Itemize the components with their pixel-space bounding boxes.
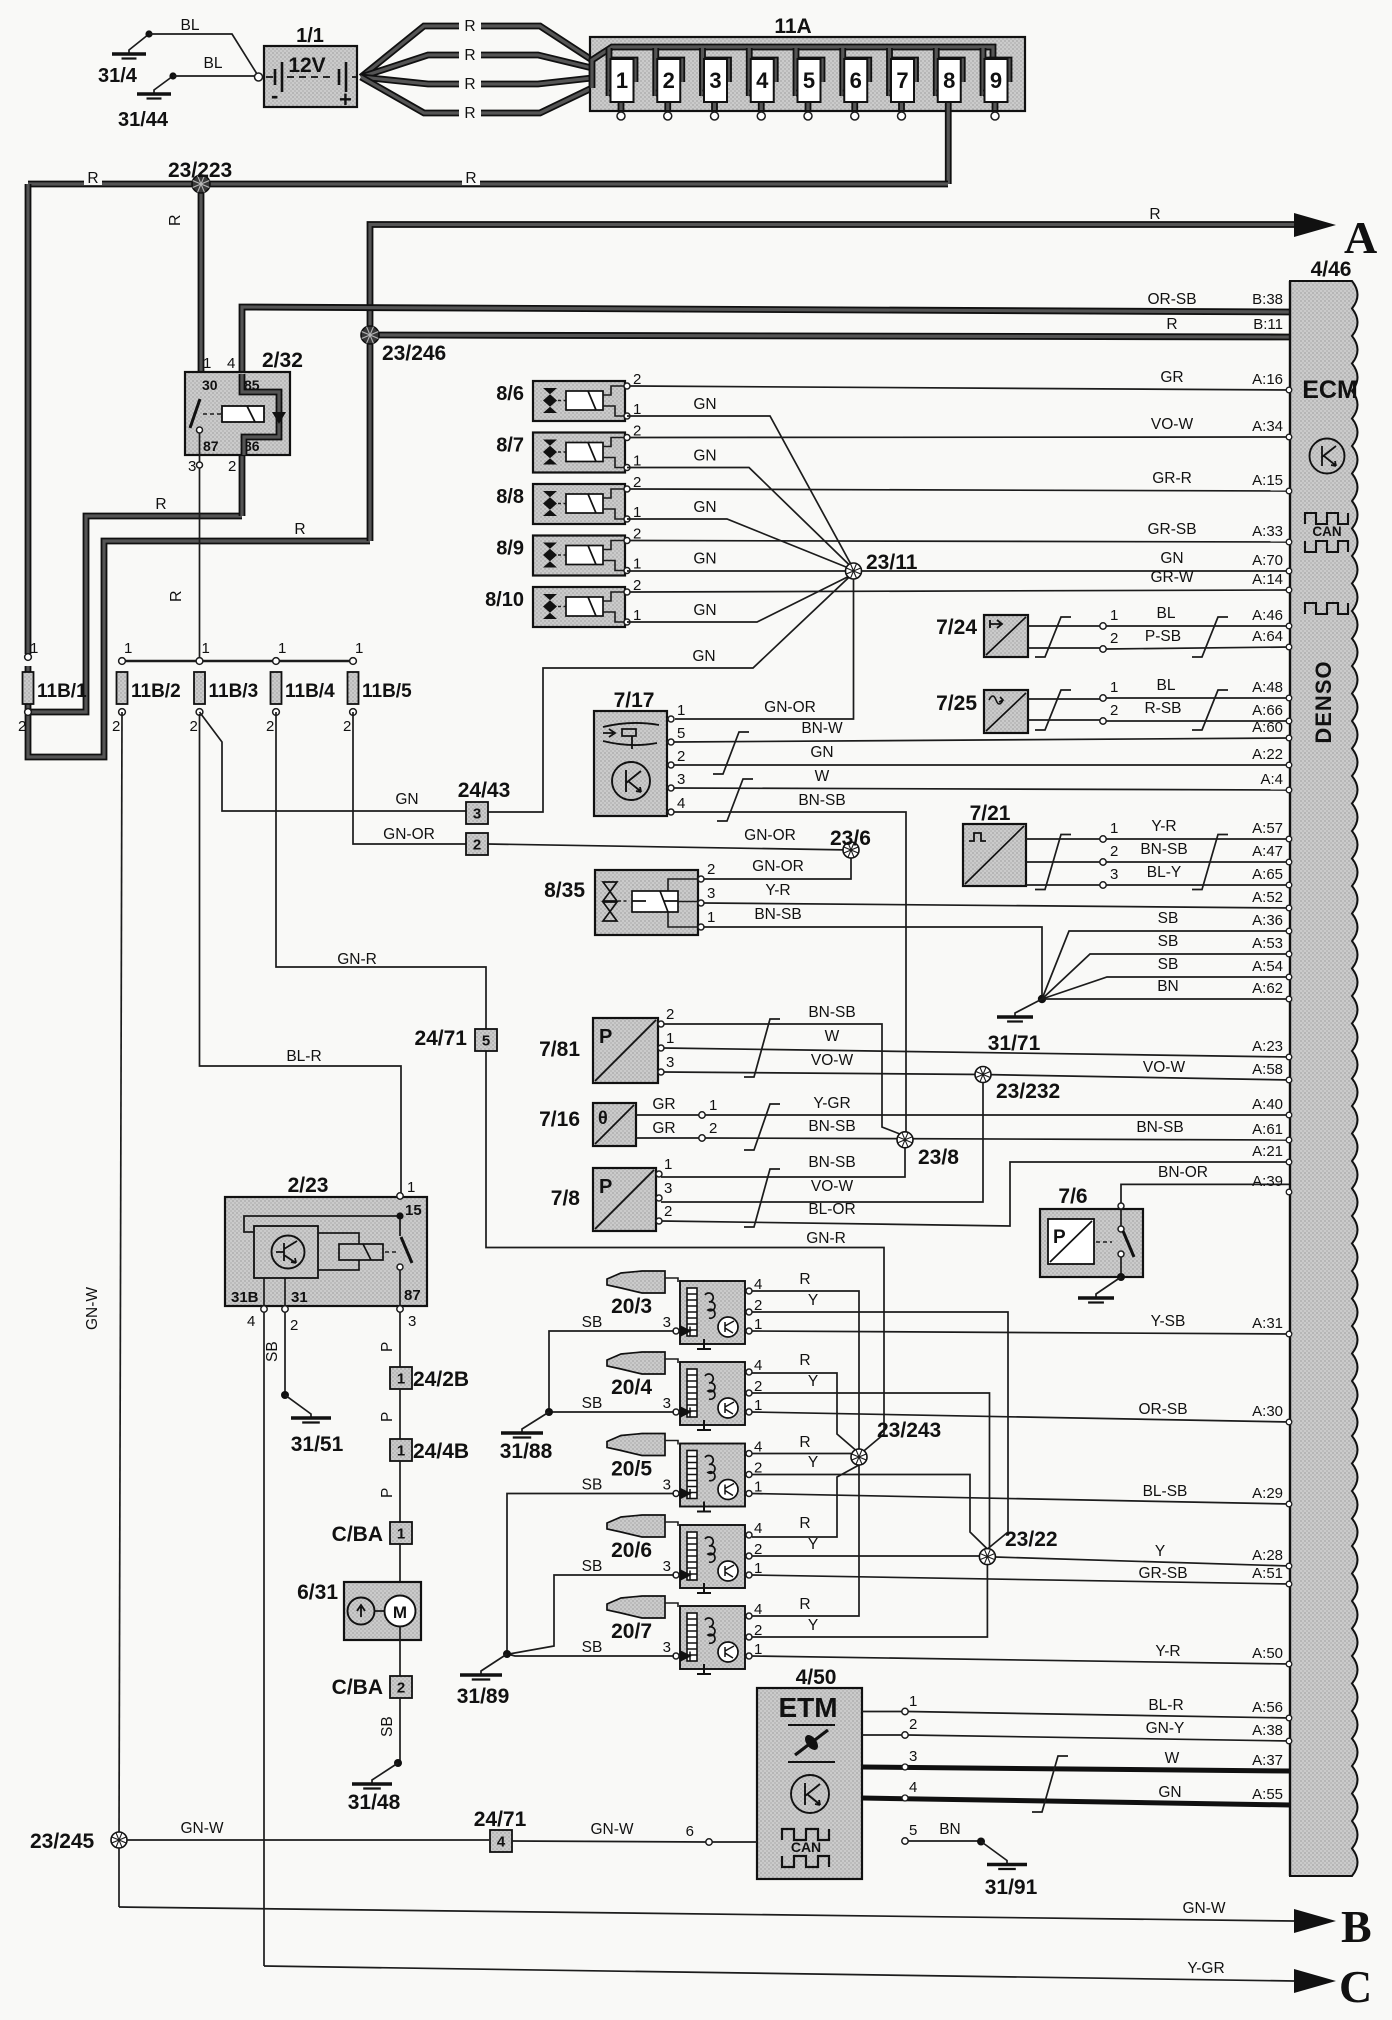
svg-text:GN: GN <box>693 499 716 516</box>
svg-text:R: R <box>465 170 476 187</box>
svg-text:A:40: A:40 <box>1252 1096 1283 1113</box>
svg-text:4: 4 <box>247 1313 255 1330</box>
svg-text:BN-OR: BN-OR <box>1158 1164 1208 1181</box>
svg-text:20/7: 20/7 <box>611 1620 652 1643</box>
slash 7/8 <box>744 1169 780 1227</box>
svg-text:7/6: 7/6 <box>1058 1185 1087 1208</box>
svg-text:A:58: A:58 <box>1252 1061 1283 1078</box>
injector 8/10 <box>485 577 641 627</box>
svg-text:1: 1 <box>1110 679 1118 696</box>
svg-text:24/71: 24/71 <box>414 1027 467 1050</box>
wire 7/21 pin3 stub <box>1026 884 1100 886</box>
svg-text:2: 2 <box>473 837 481 854</box>
relay 2/23 <box>225 1174 427 1306</box>
svg-text:A:4: A:4 <box>1260 771 1283 788</box>
svg-text:B: B <box>1341 1901 1372 1952</box>
wire 7/25 pin2 stub <box>1028 719 1100 721</box>
svg-text:23/232: 23/232 <box>996 1080 1060 1103</box>
svg-text:A:65: A:65 <box>1252 866 1283 883</box>
svg-text:BN: BN <box>1157 978 1179 995</box>
svg-text:1: 1 <box>124 640 132 657</box>
svg-text:A:23: A:23 <box>1252 1038 1283 1055</box>
injector 8/8 <box>496 474 641 524</box>
wire Y 20/6 pin2 to 23/22 <box>752 1555 980 1557</box>
wire GN-W 24/71 to ETM pin6 <box>512 1841 706 1842</box>
svg-text:3: 3 <box>408 1313 416 1330</box>
ignition coil 20/3 <box>607 1271 762 1349</box>
svg-text:GN: GN <box>1160 550 1183 567</box>
wire BN-SB 7/16 pin2 to A:61 <box>705 1138 1290 1140</box>
svg-text:Y-R: Y-R <box>765 882 790 899</box>
svg-text:A:61: A:61 <box>1252 1121 1283 1138</box>
slash 7/25 outer <box>1192 690 1228 730</box>
wire VO-W 23/232 to 7/8 pin3 <box>661 1083 983 1203</box>
svg-text:GN-W: GN-W <box>84 1287 101 1330</box>
svg-text:8: 8 <box>943 68 955 93</box>
svg-text:B:11: B:11 <box>1253 316 1283 333</box>
wire Y-R 7/21 to ECM <box>1106 838 1290 840</box>
svg-text:A:28: A:28 <box>1252 1547 1283 1564</box>
wire R 23/223 to 2/32 pin30 <box>198 184 205 396</box>
svg-text:4: 4 <box>677 795 685 812</box>
wire SB 20/3 pin3 bus <box>549 1331 674 1410</box>
fuse 11A:6 <box>843 48 869 120</box>
svg-text:A:70: A:70 <box>1252 552 1283 569</box>
svg-text:2: 2 <box>663 68 675 93</box>
wire Y 23/22 to ECM A:28 <box>995 1557 1290 1566</box>
svg-text:23/22: 23/22 <box>1005 1528 1058 1551</box>
svg-text:2: 2 <box>112 718 120 735</box>
battery 1/1 <box>255 25 358 112</box>
wire GN 24/43 to 23/11 <box>488 573 854 812</box>
svg-text:BN-SB: BN-SB <box>754 906 801 923</box>
svg-text:A:51: A:51 <box>1252 1565 1283 1582</box>
wire ETM pin1 stub <box>862 1711 902 1713</box>
wire BN to A:62 <box>1042 998 1290 1000</box>
svg-text:31/51: 31/51 <box>291 1433 344 1456</box>
svg-text:A:29: A:29 <box>1252 1485 1283 1502</box>
wire BL 31/44 to battery <box>173 75 255 77</box>
svg-text:7/24: 7/24 <box>936 616 977 639</box>
wire GN 8/10 pin1 to 23/11 <box>627 574 854 622</box>
wire R 11B/1 to relay 2/32 pin86 <box>28 516 242 712</box>
svg-text:1: 1 <box>666 1030 674 1047</box>
svg-text:3: 3 <box>663 1314 671 1331</box>
wire OR-SB 20/4 pin1 to A:30 <box>752 1412 1290 1422</box>
wire P 24/4B to C/BA <box>399 1461 401 1522</box>
wire GN-R 11B/4 to 24/71 <box>276 712 486 1029</box>
svg-text:A: A <box>1344 212 1377 263</box>
svg-text:SB: SB <box>1158 910 1179 927</box>
wire GN ETM pin4 to A:55 <box>862 1798 1290 1805</box>
wire GN 8/7 pin1 to 23/11 <box>627 468 854 570</box>
wire BL-R 11B/3 to 2/23 pin1 <box>200 714 402 1193</box>
svg-text:31/91: 31/91 <box>985 1876 1038 1899</box>
component 7/17 <box>594 689 685 816</box>
fuse 11A:1 <box>609 48 635 120</box>
svg-text:7/25: 7/25 <box>936 692 977 715</box>
slash 7/16 <box>744 1104 780 1150</box>
svg-text:GN-W: GN-W <box>590 1821 633 1838</box>
ignition coil 20/4 <box>607 1352 762 1430</box>
svg-text:GR-R: GR-R <box>1152 470 1192 487</box>
svg-text:1: 1 <box>1110 607 1118 624</box>
svg-text:BL: BL <box>204 55 223 72</box>
wire BL-OR 7/8 pin2 to A:21 <box>662 1162 1290 1226</box>
svg-text:A:50: A:50 <box>1252 1645 1283 1662</box>
svg-text:GN-W: GN-W <box>1182 1900 1225 1917</box>
svg-text:20/4: 20/4 <box>611 1376 652 1399</box>
svg-text:SB: SB <box>582 1395 603 1412</box>
svg-text:23/223: 23/223 <box>168 159 232 182</box>
svg-text:5: 5 <box>803 68 815 93</box>
svg-text:Y: Y <box>808 1292 818 1309</box>
svg-text:Y: Y <box>808 1536 818 1553</box>
wire GN-OR 23/11 to 7/17 pin1 <box>675 579 854 719</box>
svg-text:3: 3 <box>666 1054 674 1071</box>
ground 31/89 <box>460 1654 507 1680</box>
wire BN-SB 8/35 pin1 to 31/71 <box>704 927 1042 995</box>
svg-text:ECM: ECM <box>1302 376 1358 404</box>
wire 2/32 coil loop <box>242 374 279 455</box>
pressure switch 7/6 <box>1040 1185 1143 1277</box>
svg-text:CAN: CAN <box>791 1839 821 1855</box>
ECM connector 4/46 <box>1290 258 1358 1876</box>
svg-text:GN: GN <box>810 744 833 761</box>
slash 7/24 outer <box>1192 617 1228 657</box>
svg-text:2: 2 <box>1110 702 1118 719</box>
slash 7/21 inner <box>1035 835 1071 890</box>
wire GR-SB 20/6 pin1 to A:51 <box>752 1575 1290 1584</box>
svg-text:5: 5 <box>677 725 685 742</box>
svg-text:2: 2 <box>290 1317 298 1334</box>
svg-text:2/23: 2/23 <box>288 1174 329 1197</box>
svg-text:BL-R: BL-R <box>1148 1697 1183 1714</box>
wire GR 7/16 pin1 stub <box>636 1114 699 1116</box>
svg-text:R: R <box>464 76 475 93</box>
svg-text:A:37: A:37 <box>1252 1752 1283 1769</box>
svg-text:SB: SB <box>264 1341 281 1362</box>
svg-text:8/9: 8/9 <box>496 538 524 560</box>
fusebox 11A <box>590 15 1025 111</box>
wire R 2/32 pin86 riser <box>239 455 246 516</box>
ground 7/6 <box>1078 1277 1121 1303</box>
svg-text:A:57: A:57 <box>1252 820 1283 837</box>
fuse 11A:7 <box>890 48 916 120</box>
svg-text:GN-R: GN-R <box>806 1230 846 1247</box>
wire Y-GR to arrow C <box>264 1966 1294 1981</box>
svg-text:A:53: A:53 <box>1252 935 1283 952</box>
ground 31/71 symbol <box>997 999 1042 1022</box>
slash ETM thick pair <box>1032 1756 1068 1812</box>
svg-text:R: R <box>799 1352 810 1369</box>
wire BN-SB 23/8 to 7/8 pin1 <box>661 1148 905 1177</box>
sensor 7/25 <box>936 690 1028 733</box>
svg-text:A:31: A:31 <box>1252 1315 1283 1332</box>
svg-text:GR: GR <box>652 1096 675 1113</box>
ground 31/51 <box>285 1395 331 1423</box>
svg-text:A:39: A:39 <box>1252 1173 1283 1190</box>
wire 2/32 pin87 to 11B bus <box>199 462 201 660</box>
svg-text:20/5: 20/5 <box>611 1458 652 1481</box>
fuse 11B/1 <box>18 640 87 735</box>
svg-text:7/8: 7/8 <box>551 1187 581 1210</box>
svg-text:SB: SB <box>582 1477 603 1494</box>
svg-text:GN-Y: GN-Y <box>1146 1720 1185 1737</box>
ignition coil 20/6 <box>607 1515 762 1593</box>
svg-text:2: 2 <box>1110 843 1118 860</box>
svg-text:1: 1 <box>407 1179 415 1196</box>
wire 8/6 pin2 to ECM <box>630 386 1290 390</box>
wire BL 31/4 to battery <box>149 34 257 74</box>
svg-text:P: P <box>379 1412 396 1422</box>
svg-text:23/246: 23/246 <box>382 342 446 365</box>
connector C/BA pin1 <box>390 1522 412 1544</box>
wire R-SB 7/25 to A:66 <box>1106 720 1290 722</box>
svg-text:7/17: 7/17 <box>614 689 655 712</box>
node 23/6 <box>843 842 859 858</box>
wire SB 20/7 pin3 bus <box>507 1654 674 1656</box>
wire BL 7/24 to A:46 <box>1106 625 1290 627</box>
svg-text:BN: BN <box>939 1821 961 1838</box>
svg-text:C/BA: C/BA <box>332 1523 383 1546</box>
svg-text:11B/1: 11B/1 <box>37 681 87 702</box>
svg-text:GR: GR <box>652 1120 675 1137</box>
svg-text:A:34: A:34 <box>1252 418 1283 435</box>
svg-text:1: 1 <box>397 1443 405 1460</box>
connector 24/4B <box>390 1439 412 1461</box>
ground 31/91 <box>981 1842 1027 1870</box>
svg-text:GN: GN <box>395 791 418 808</box>
wire GN-OR 11B/5 to 24/43 <box>353 712 467 844</box>
throttle module 4/50 ETM <box>757 1666 862 1879</box>
svg-text:31/4: 31/4 <box>98 65 138 87</box>
wire Y-R 8/35 pin3 to A:52 <box>704 903 1290 908</box>
wire BN-SB 7/17 pin4 to 23/8 <box>674 812 906 1134</box>
svg-text:BL-Y: BL-Y <box>1147 864 1181 881</box>
svg-text:31: 31 <box>291 1289 308 1306</box>
svg-text:SB: SB <box>1158 933 1179 950</box>
svg-text:31B: 31B <box>231 1289 259 1306</box>
wire SB 20/6 pin3 bus <box>509 1575 674 1654</box>
fuse 11A:2 <box>656 48 682 120</box>
svg-text:BN-SB: BN-SB <box>1140 841 1187 858</box>
svg-text:R: R <box>799 1515 810 1532</box>
injector 8/9 <box>496 526 641 576</box>
svg-text:BN-SB: BN-SB <box>1136 1119 1183 1136</box>
svg-text:SB: SB <box>582 1639 603 1656</box>
fuse 11B/2 <box>112 640 181 735</box>
svg-text:A:38: A:38 <box>1252 1722 1283 1739</box>
valve 8/35 <box>544 861 715 935</box>
svg-text:23/243: 23/243 <box>877 1419 941 1442</box>
svg-text:5: 5 <box>482 1033 490 1050</box>
svg-text:A:15: A:15 <box>1252 472 1283 489</box>
svg-text:A:56: A:56 <box>1252 1699 1283 1716</box>
wire 7/25 pin1 stub <box>1028 698 1100 700</box>
fuse 11A:9 <box>983 48 1009 120</box>
svg-text:7/81: 7/81 <box>539 1038 580 1061</box>
svg-text:ETM: ETM <box>778 1692 837 1723</box>
wire GN 23/11 to ECM A:70 <box>862 570 1291 572</box>
svg-text:1: 1 <box>707 909 715 926</box>
svg-text:A:21: A:21 <box>1252 1143 1283 1160</box>
svg-text:A:54: A:54 <box>1252 958 1283 975</box>
sensor 7/24 <box>936 615 1028 657</box>
wire 8/9 pin2 to ECM <box>630 541 1290 543</box>
svg-text:3: 3 <box>473 806 481 823</box>
svg-text:8/8: 8/8 <box>496 486 524 508</box>
svg-text:2: 2 <box>666 1006 674 1023</box>
svg-text:A:48: A:48 <box>1252 679 1283 696</box>
svg-text:87: 87 <box>404 1287 421 1304</box>
wire SB 20/5 pin3 bus <box>507 1494 674 1653</box>
wire BN ETM pin5 <box>908 1840 978 1842</box>
wire GN-R 24/71 to 23/243 <box>486 1051 884 1455</box>
svg-text:1: 1 <box>677 702 685 719</box>
svg-text:4/46: 4/46 <box>1311 258 1352 281</box>
svg-text:CAN: CAN <box>1312 524 1341 539</box>
fuse 11A:8 <box>936 48 962 184</box>
svg-text:GN-OR: GN-OR <box>383 826 435 843</box>
svg-text:3: 3 <box>909 1748 917 1765</box>
svg-text:BL-OR: BL-OR <box>808 1201 855 1218</box>
svg-text:1: 1 <box>633 556 641 573</box>
connector 24/43 <box>458 779 511 802</box>
wire R battery feed 4 <box>361 77 592 113</box>
fusebox bus <box>592 47 993 92</box>
svg-text:A:16: A:16 <box>1252 371 1283 388</box>
svg-text:2: 2 <box>664 1203 672 1220</box>
wire P-SB 7/24 to A:64 <box>1106 647 1290 649</box>
sensor 7/8 <box>551 1168 656 1231</box>
svg-text:2: 2 <box>909 1716 917 1733</box>
svg-text:2: 2 <box>709 1120 717 1137</box>
node 23/11 <box>846 563 862 579</box>
svg-text:A:64: A:64 <box>1252 628 1283 645</box>
wire R 23/243 to 20/7 pin4 <box>752 1465 859 1616</box>
arrow A <box>1294 213 1336 237</box>
wire R main feed horizontal 23/223 <box>28 181 948 188</box>
svg-text:1: 1 <box>203 355 211 372</box>
wire BL-R ETM pin1 to A:56 <box>908 1712 1290 1719</box>
wire GN 7/17 pin2 to A:22 <box>674 764 1290 766</box>
wire GN-OR 24/43 to 23/6 <box>488 844 851 850</box>
svg-text:GR-SB: GR-SB <box>1147 521 1196 538</box>
wire W ETM pin3 to A:37 <box>862 1767 1290 1771</box>
svg-text:15: 15 <box>405 1202 422 1219</box>
svg-text:A:52: A:52 <box>1252 889 1283 906</box>
svg-text:A:62: A:62 <box>1252 980 1283 997</box>
slash 7/81 <box>744 1019 780 1077</box>
svg-text:GR-W: GR-W <box>1150 569 1193 586</box>
injector 8/7 <box>496 423 641 473</box>
svg-text:31/48: 31/48 <box>348 1791 401 1814</box>
svg-text:SB: SB <box>1158 956 1179 973</box>
node 23/246 <box>361 326 379 344</box>
svg-text:VO-W: VO-W <box>811 1178 854 1195</box>
svg-text:6/31: 6/31 <box>297 1581 338 1604</box>
connector 24/71 pin4 <box>490 1830 512 1852</box>
wire GN-W 23/245 to 24/71 <box>127 1839 489 1841</box>
svg-text:A:14: A:14 <box>1252 571 1283 588</box>
svg-text:3: 3 <box>188 458 196 475</box>
svg-text:3: 3 <box>707 885 715 902</box>
svg-text:11B/3: 11B/3 <box>209 681 259 702</box>
svg-text:A:47: A:47 <box>1252 843 1283 860</box>
svg-text:SB: SB <box>582 1314 603 1331</box>
sensor 7/16 <box>539 1103 636 1146</box>
svg-text:BN-SB: BN-SB <box>798 792 845 809</box>
wire P 2/23 pin87 to 24/2B <box>399 1312 401 1367</box>
wire BN-W 7/17 pin5 to A:60 <box>674 738 1290 742</box>
wire Y 20/7 pin2 to 23/22 <box>752 1565 987 1637</box>
svg-text:8/6: 8/6 <box>496 383 524 405</box>
svg-text:W: W <box>1165 1750 1180 1767</box>
wire 7/24 pin2 stub <box>1028 647 1100 649</box>
svg-text:23/8: 23/8 <box>918 1146 959 1169</box>
wire SB to A:53 <box>1042 954 1290 999</box>
wire GN 8/8 pin1 to 23/11 <box>627 519 854 570</box>
svg-text:GN: GN <box>693 602 716 619</box>
injector 8/6 <box>496 371 641 421</box>
wire R 11B/1 out loop <box>28 541 370 757</box>
wire BL 7/25 to A:48 <box>1106 697 1290 699</box>
node 23/8 <box>897 1132 913 1148</box>
svg-text:A:55: A:55 <box>1252 1786 1283 1803</box>
svg-text:31/44: 31/44 <box>118 109 169 131</box>
wire GR 7/16 pin2 stub <box>636 1137 699 1139</box>
svg-text:87: 87 <box>203 438 219 454</box>
arrow B <box>1294 1909 1336 1933</box>
svg-text:20/3: 20/3 <box>611 1295 652 1318</box>
svg-text:GN-OR: GN-OR <box>752 858 804 875</box>
wire SB C/BA to 31/48 <box>399 1698 401 1763</box>
svg-text:1: 1 <box>1110 820 1118 837</box>
svg-text:3: 3 <box>663 1639 671 1656</box>
svg-text:4: 4 <box>756 68 769 93</box>
svg-text:R: R <box>464 105 475 122</box>
svg-text:2: 2 <box>707 861 715 878</box>
svg-text:-: - <box>271 83 278 108</box>
svg-text:R: R <box>1149 206 1160 223</box>
wire GN-W to arrow B <box>119 1907 1294 1921</box>
wire GN 8/6 pin1 to 23/11 <box>627 416 854 569</box>
wire 7/21 pin2 stub <box>1026 861 1100 863</box>
svg-text:9: 9 <box>990 68 1002 93</box>
wire R 20/4 pin4 to 23/243 <box>752 1373 859 1453</box>
svg-text:6: 6 <box>686 1823 694 1840</box>
svg-text:P-SB: P-SB <box>1145 628 1181 645</box>
svg-text:4: 4 <box>754 1357 762 1374</box>
slash 7/25 inner <box>1035 690 1071 730</box>
svg-text:2: 2 <box>18 718 26 735</box>
fuse 11B/3 <box>190 640 259 735</box>
svg-text:DENSO: DENSO <box>1311 660 1336 743</box>
node 23/223 <box>192 175 210 193</box>
svg-text:3: 3 <box>663 1477 671 1494</box>
node 23/232 <box>975 1067 991 1083</box>
node 23/22 <box>979 1549 995 1565</box>
twist slash 7/17 lower <box>717 779 753 821</box>
wire 8/7 pin2 to ECM <box>630 436 1290 439</box>
connector 24/2B <box>390 1367 412 1389</box>
svg-text:7/16: 7/16 <box>539 1108 580 1131</box>
svg-text:R: R <box>799 1271 810 1288</box>
svg-text:R-SB: R-SB <box>1144 700 1181 717</box>
wire BL-Y 7/21 to ECM <box>1106 884 1290 886</box>
svg-text:11B/5: 11B/5 <box>362 681 412 702</box>
